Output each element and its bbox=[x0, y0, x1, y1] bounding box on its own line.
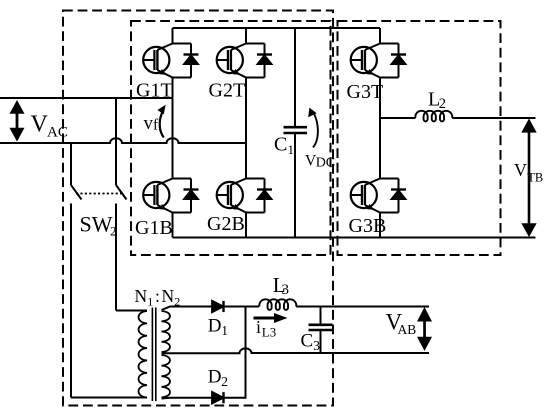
svg-text:3: 3 bbox=[313, 338, 320, 353]
svg-text:2: 2 bbox=[439, 96, 446, 112]
curved arrow VDC bbox=[308, 108, 318, 148]
capacitor C3 plates bbox=[309, 325, 333, 330]
switch SW2 left pole bbox=[71, 143, 82, 398]
svg-text:1: 1 bbox=[288, 142, 295, 157]
wire secondary top to D1 bbox=[162, 307, 213, 311]
transformer secondary lower winding N2 bbox=[162, 355, 170, 397]
transformer secondary upper winding N2 bbox=[162, 311, 170, 352]
svg-text::: : bbox=[155, 286, 160, 306]
IGBT G2T collector/emitter diagonals bbox=[231, 44, 246, 51]
svg-text:C: C bbox=[301, 331, 314, 352]
svg-text:G2B: G2B bbox=[207, 213, 245, 235]
IGBT G3B gate lead and bars bbox=[351, 194, 362, 196]
G1 leg bbox=[172, 28, 174, 238]
svg-text:DC: DC bbox=[316, 156, 335, 171]
IGBT cells: drawn by group bbox=[143, 44, 406, 213]
svg-text:V: V bbox=[514, 160, 527, 180]
curved arrow vf bbox=[157, 105, 165, 138]
IGBT G3B collector/emitter diagonals bbox=[365, 179, 380, 186]
wire D1 cathode to L3 junction bbox=[224, 306, 260, 308]
inductor L3 bbox=[259, 299, 296, 310]
IGBT G1B collector/emitter diagonals bbox=[157, 179, 172, 186]
IGBT G3B collector wire bbox=[380, 178, 399, 180]
svg-text:AB: AB bbox=[398, 322, 417, 337]
capacitor C1 leads bbox=[294, 28, 296, 238]
IGBT G3T anti-parallel diode bbox=[398, 44, 400, 78]
IGBT G2T collector wire bbox=[246, 43, 265, 45]
svg-text:G1T: G1T bbox=[136, 80, 173, 102]
svg-text:L3: L3 bbox=[262, 325, 276, 340]
svg-text:1: 1 bbox=[221, 323, 228, 338]
diode D2 bbox=[212, 392, 224, 404]
IGBT G2B cell bbox=[217, 179, 273, 213]
svg-text:AC: AC bbox=[47, 124, 68, 140]
svg-text:G2T: G2T bbox=[209, 80, 246, 102]
IGBT G1T body circle bbox=[143, 47, 169, 73]
svg-text:G1B: G1B bbox=[135, 217, 173, 239]
IGBT G1T cell bbox=[143, 44, 199, 78]
outer dashed box bbox=[63, 11, 333, 406]
bridge bottom rail bbox=[173, 237, 536, 239]
svg-text:G3B: G3B bbox=[349, 215, 387, 237]
IGBT G2B anti-parallel diode bbox=[264, 179, 266, 213]
capacitor C1 plates bbox=[284, 127, 308, 133]
wire drop from AC top to SW2 right pole bbox=[115, 98, 117, 185]
IGBT G1B anti-parallel diode bbox=[190, 179, 192, 213]
current arrow iL3 bbox=[254, 313, 288, 323]
inverter dashed box bbox=[131, 21, 331, 255]
wire secondary bottom to D2 bbox=[162, 397, 213, 400]
IGBT G1B collector wire bbox=[173, 178, 192, 180]
IGBT G1B body circle bbox=[143, 182, 169, 208]
svg-text:V: V bbox=[31, 111, 49, 137]
IGBT G3T body circle bbox=[351, 47, 377, 73]
svg-text:N: N bbox=[162, 286, 175, 306]
IGBT G2T cell bbox=[217, 44, 273, 78]
IGBT G3B body circle bbox=[351, 182, 377, 208]
IGBT G3B cell bbox=[351, 179, 407, 213]
IGBT G3B emitter wire bbox=[380, 212, 399, 214]
svg-text:1: 1 bbox=[147, 295, 153, 309]
right dashed box bbox=[338, 21, 501, 255]
svg-text:f: f bbox=[153, 117, 159, 134]
IGBT G3T gate lead and bars bbox=[351, 59, 362, 61]
IGBT G2B gate lead and bars bbox=[217, 194, 228, 196]
voltage arrow VAC bbox=[10, 100, 25, 142]
svg-text:C: C bbox=[274, 134, 287, 156]
svg-text:D: D bbox=[208, 367, 222, 388]
transformer core bbox=[152, 308, 155, 402]
IGBT G2B collector/emitter diagonals bbox=[231, 179, 246, 186]
G3 leg bbox=[379, 28, 381, 238]
wire center tap to VAB bottom with hop bbox=[162, 348, 430, 353]
svg-text:2: 2 bbox=[221, 374, 228, 389]
IGBT G3T collector wire bbox=[380, 43, 399, 45]
IGBT G1B cell bbox=[143, 179, 199, 213]
svg-text:3: 3 bbox=[282, 282, 290, 298]
capacitor C3 leads bbox=[320, 307, 322, 353]
IGBT G1T anti-parallel diode bbox=[190, 44, 192, 78]
IGBT G1T emitter wire bbox=[173, 77, 192, 79]
wire D2 cathode up to L3 junction bbox=[224, 307, 246, 398]
transformer primary winding N1 bbox=[139, 311, 147, 398]
wire AC bottom with hops bbox=[0, 138, 246, 143]
IGBT G2B collector wire bbox=[246, 178, 265, 180]
IGBT G3T emitter wire bbox=[380, 77, 399, 79]
IGBT G1B emitter wire bbox=[173, 212, 192, 214]
svg-text:2: 2 bbox=[174, 295, 180, 309]
IGBT G2T anti-parallel diode bbox=[264, 44, 266, 78]
switch SW2 right pole bbox=[116, 185, 127, 311]
wire G3 phase to L2 bbox=[380, 117, 416, 119]
svg-text:SW: SW bbox=[80, 212, 113, 237]
G2 leg bbox=[245, 28, 247, 238]
wire L2 to VTB top bbox=[452, 117, 535, 119]
IGBT G1T collector wire bbox=[173, 43, 192, 45]
svg-text:2: 2 bbox=[110, 224, 117, 239]
diode D1 bbox=[212, 301, 224, 313]
svg-text:i: i bbox=[256, 317, 261, 337]
voltage arrow VAB bbox=[417, 307, 432, 351]
IGBT G3T cell bbox=[351, 44, 407, 78]
svg-text:N: N bbox=[135, 286, 148, 306]
IGBT G2T gate lead and bars bbox=[217, 59, 228, 61]
IGBT G2B body circle bbox=[217, 182, 243, 208]
IGBT G3B anti-parallel diode bbox=[398, 179, 400, 213]
inductor L2 bbox=[415, 111, 452, 122]
IGBT G2T body circle bbox=[217, 47, 243, 73]
voltage arrow VTB bbox=[521, 118, 536, 237]
svg-text:D: D bbox=[208, 316, 222, 337]
wire AC top bbox=[0, 97, 173, 99]
wire SW2 left pole to transformer primary bottom bbox=[71, 397, 147, 399]
wire L3 to VAB top bbox=[296, 306, 429, 308]
bridge top rail bbox=[173, 27, 381, 29]
IGBT G1T gate lead and bars bbox=[143, 59, 154, 61]
IGBT G1T collector/emitter diagonals bbox=[157, 44, 172, 51]
wire SW2 right pole to transformer primary top bbox=[116, 310, 147, 312]
IGBT G3T collector/emitter diagonals bbox=[365, 44, 380, 51]
SW2 dotted link bbox=[76, 193, 124, 195]
svg-text:G3T: G3T bbox=[347, 81, 384, 103]
svg-text:v: v bbox=[144, 113, 154, 134]
IGBT G2B emitter wire bbox=[246, 212, 265, 214]
IGBT G1B gate lead and bars bbox=[143, 194, 154, 196]
svg-text:TB: TB bbox=[527, 171, 543, 185]
IGBT G2T emitter wire bbox=[246, 77, 265, 79]
